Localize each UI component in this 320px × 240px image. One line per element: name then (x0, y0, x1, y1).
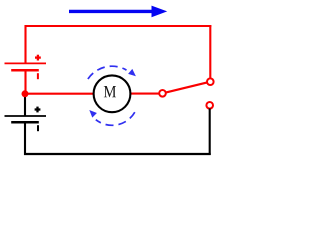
switch top contact (207, 78, 214, 85)
wire right vertical black (209, 108, 211, 155)
wire B1 to junction (24, 70, 26, 94)
node junction dot (22, 90, 29, 97)
rotation arc top (dashed) (88, 66, 127, 79)
label + of B1 (35, 55, 41, 61)
label - of B1 (37, 73, 39, 79)
wire right vertical red (209, 25, 211, 79)
wire junction to motor (25, 93, 94, 95)
label - of B2 (37, 125, 39, 131)
wire left vertical upper (24, 25, 26, 63)
rotation arc bottom (dashed) (96, 112, 135, 125)
wire bottom horizontal (24, 153, 211, 155)
switch pivot terminal (159, 90, 166, 97)
rotation arrowhead bottom (89, 110, 97, 118)
wire junction to B2 (black) (24, 94, 26, 116)
wire B2 to bottom (24, 122, 26, 155)
battery cell B2 (lower, black) (5, 116, 47, 122)
rotation arrowhead top (128, 69, 136, 76)
switch S1 lever (163, 82, 211, 94)
switch bottom contact (206, 102, 213, 109)
battery cell B1 (upper, red) (5, 63, 47, 70)
wire top horizontal (25, 25, 212, 27)
label + of B2 (35, 107, 41, 113)
current direction arrow (69, 6, 167, 18)
motor M (94, 75, 131, 112)
wire motor to switch pivot (131, 93, 163, 95)
